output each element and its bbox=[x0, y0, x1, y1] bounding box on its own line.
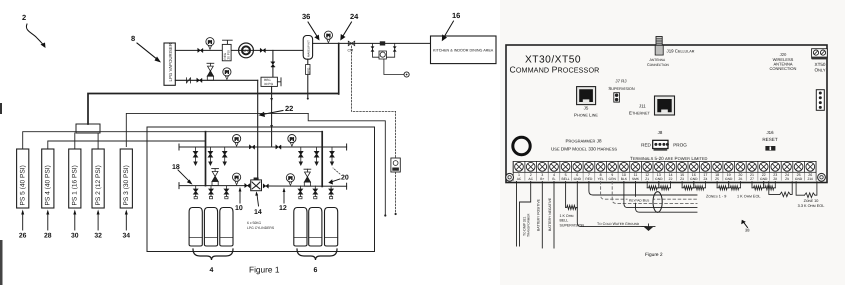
callout 30 with arrow bbox=[71, 210, 79, 240]
relief valve left manifold bbox=[212, 169, 219, 186]
makeup kit sense stem BPG bbox=[306, 59, 311, 99]
LPG cylinder bbox=[309, 208, 322, 247]
terminal strip body bbox=[513, 161, 816, 180]
svg-text:26: 26 bbox=[19, 233, 27, 240]
XT50 wireless connector (top right) bbox=[812, 49, 828, 60]
battery positive wire bbox=[541, 182, 543, 249]
pigtail drop valve bbox=[194, 147, 198, 165]
J20 header 4 pin bbox=[816, 90, 824, 111]
svg-text:30 PSI: 30 PSI bbox=[264, 82, 273, 86]
J5 phone line label bbox=[574, 106, 598, 118]
vapour outlet pipe (top) bbox=[175, 49, 303, 51]
sensing line PS5 across bbox=[23, 132, 323, 149]
svg-text:ETHERNET: ETHERNET bbox=[629, 111, 651, 116]
bypass gauge BPG bbox=[239, 43, 254, 58]
junction box for PS1/PS2 sensing lines bbox=[76, 124, 100, 133]
svg-text:SUPERVISION: SUPERVISION bbox=[608, 86, 635, 91]
keypad bus loop ellipse bbox=[653, 192, 662, 213]
pigtail drop valve bbox=[315, 147, 319, 165]
label 14 with arrow bbox=[254, 191, 262, 216]
programmer text bbox=[551, 139, 617, 152]
sensing line from junction box to main riser (thick) bbox=[88, 94, 339, 125]
transformer wires bbox=[517, 182, 531, 247]
terminal 23 Z8 bbox=[771, 162, 780, 180]
pigtail drop valve bbox=[209, 147, 213, 165]
svg-text:1 K OHM: 1 K OHM bbox=[560, 214, 574, 218]
svg-text:BPG: BPG bbox=[242, 49, 250, 53]
svg-text:RED: RED bbox=[585, 177, 593, 181]
svg-text:J11: J11 bbox=[639, 104, 646, 109]
battery negative label bbox=[548, 197, 552, 231]
terminal 2 AC bbox=[526, 162, 535, 180]
svg-text:TERMINALS 5-20 ARE POWER LIMIT: TERMINALS 5-20 ARE POWER LIMITED bbox=[630, 156, 708, 161]
regulator REG 20 PSI bbox=[222, 40, 232, 61]
brace bank 4 bbox=[193, 249, 233, 274]
XT50 only label bbox=[814, 62, 825, 73]
drain branch with vent bbox=[384, 59, 409, 77]
pressure switch PS 5 bbox=[17, 149, 29, 208]
sensing line to solenoid loop bbox=[308, 113, 386, 216]
cylinder valve bbox=[194, 186, 198, 199]
svg-text:PS 2 (12 PSI): PS 2 (12 PSI) bbox=[95, 165, 102, 205]
main riser junction 24 bbox=[338, 43, 340, 94]
callout 38 arrow bbox=[741, 220, 750, 233]
svg-text:Z5: Z5 bbox=[715, 177, 719, 181]
svg-text:24: 24 bbox=[350, 12, 359, 21]
pressure gauge PI (main line) bbox=[324, 31, 332, 43]
callout 26 with arrow bbox=[19, 210, 27, 240]
svg-text:MAKEUP KIT: MAKEUP KIT bbox=[307, 40, 311, 57]
label 36 with arrow bbox=[302, 12, 320, 41]
valve on branch bbox=[271, 62, 275, 67]
battery negative wire bbox=[553, 182, 555, 249]
left strip screw bbox=[506, 173, 514, 181]
svg-text:12: 12 bbox=[279, 205, 287, 212]
svg-text:Z6: Z6 bbox=[738, 177, 742, 181]
pipe from REG 30 PSI down to manifold bbox=[270, 86, 273, 146]
check symbol on feed pipe bbox=[187, 78, 191, 83]
dashed control line from CM valve bbox=[352, 46, 396, 213]
Figure 1 caption bbox=[249, 265, 280, 275]
svg-text:6 x 50KG: 6 x 50KG bbox=[247, 221, 261, 225]
pressure switch PS 1 bbox=[69, 149, 81, 208]
svg-text:6: 6 bbox=[314, 267, 318, 274]
svg-text:CONNECTION: CONNECTION bbox=[647, 63, 669, 67]
shutoff valve CM bbox=[348, 41, 355, 52]
cylinder valve bbox=[209, 186, 213, 199]
svg-text:2: 2 bbox=[22, 13, 26, 22]
svg-text:LPG CYLINDERS: LPG CYLINDERS bbox=[247, 226, 275, 230]
svg-text:GND: GND bbox=[795, 177, 803, 181]
terminal 6 GND bbox=[573, 162, 582, 180]
relief valve right manifold bbox=[304, 169, 311, 186]
LPG cylinder bbox=[189, 208, 202, 247]
terminal 8 YEL bbox=[596, 162, 605, 180]
label 16 with arrow bbox=[442, 11, 461, 41]
svg-text:BATTERY POSITIVE: BATTERY POSITIVE bbox=[537, 198, 541, 231]
zone EOL resistors bbox=[647, 182, 775, 190]
zone 9 resistor (offset) bbox=[769, 182, 792, 197]
svg-text:PROGRAMMER J8: PROGRAMMER J8 bbox=[565, 139, 602, 144]
label 10 with arrow bbox=[235, 187, 243, 212]
gauges on top manifold bbox=[233, 135, 297, 147]
terminal 10 BLK bbox=[620, 162, 629, 180]
supply drop right bank (thick) bbox=[321, 132, 323, 187]
battery positive label bbox=[537, 198, 541, 231]
line sensor unit bbox=[391, 158, 400, 172]
terminal 7 RED bbox=[585, 162, 594, 180]
figure 2: XT30/XT50 command processor board bbox=[500, 0, 845, 285]
callout 32 with arrow bbox=[94, 210, 102, 240]
cylinder valve bbox=[313, 186, 317, 199]
svg-text:CM: CM bbox=[348, 49, 354, 53]
svg-text:PHONE LINE: PHONE LINE bbox=[574, 113, 598, 118]
gauges on bottom manifold bbox=[233, 173, 295, 185]
regulator REG 30 PSI bbox=[261, 77, 281, 86]
J7 jumper 2 pin bbox=[614, 93, 620, 102]
LPG cylinder bbox=[220, 208, 233, 247]
svg-text:4: 4 bbox=[210, 267, 214, 274]
svg-text:14: 14 bbox=[254, 209, 262, 216]
cylinders text bbox=[247, 221, 275, 230]
J20 wireless antenna label bbox=[770, 52, 797, 71]
svg-text:LPG VAPOURISER: LPG VAPOURISER bbox=[168, 43, 173, 81]
mounting hole bbox=[513, 137, 530, 154]
cylinder enclosure bbox=[147, 127, 375, 252]
liquid manifold (bottom) right segment bbox=[265, 183, 347, 189]
svg-text:1 K OHM EOL: 1 K OHM EOL bbox=[737, 195, 761, 199]
svg-text:32: 32 bbox=[94, 233, 102, 240]
LPG cylinder bbox=[294, 208, 307, 247]
svg-text:10: 10 bbox=[235, 205, 243, 212]
svg-text:XT50: XT50 bbox=[815, 62, 826, 67]
J8 prog header bbox=[641, 130, 687, 151]
keypad bus wires bbox=[589, 182, 697, 213]
board title bbox=[510, 55, 600, 75]
pigtail drop valve bbox=[223, 147, 227, 165]
relief valve on feed pipe bbox=[207, 63, 214, 80]
zone 10 note bbox=[798, 199, 825, 208]
svg-text:AC: AC bbox=[528, 177, 533, 181]
label 22 with arrow bbox=[259, 104, 294, 117]
terminal 4 B- bbox=[550, 162, 559, 180]
terminal 16 GND bbox=[689, 162, 698, 180]
label 20 with arrow bbox=[328, 168, 349, 185]
svg-text:PROG: PROG bbox=[673, 143, 687, 148]
svg-text:ZONE 10: ZONE 10 bbox=[804, 199, 819, 203]
cold water ground label bbox=[597, 222, 640, 226]
transformer label bbox=[523, 213, 531, 237]
right strip screw bbox=[818, 173, 826, 181]
svg-text:BLK: BLK bbox=[621, 177, 628, 181]
cylinder valve bbox=[225, 186, 229, 199]
svg-text:Z2: Z2 bbox=[669, 177, 673, 181]
terminal 15 Z3 bbox=[678, 162, 687, 180]
pressure switch PS 3 bbox=[120, 149, 132, 208]
svg-text:CONNECTION: CONNECTION bbox=[770, 66, 797, 71]
svg-text:COMMAND PROCESSOR: COMMAND PROCESSOR bbox=[510, 65, 600, 75]
pigtail drop valve bbox=[299, 147, 303, 165]
svg-text:38: 38 bbox=[745, 228, 750, 233]
svg-text:Z7: Z7 bbox=[750, 177, 754, 181]
svg-text:BATTERY NEGATIVE: BATTERY NEGATIVE bbox=[548, 197, 552, 231]
changeover feed pipe 22 (down to manifold) bbox=[257, 80, 259, 180]
svg-text:PS 1 (16 PSI): PS 1 (16 PSI) bbox=[72, 165, 79, 205]
svg-text:3.3 K OHM EOL: 3.3 K OHM EOL bbox=[798, 204, 825, 208]
liquid feed pipe (lower) bbox=[175, 79, 257, 81]
makeup kit vessel 36 bbox=[303, 36, 312, 60]
terminal 26 Z10 bbox=[806, 162, 815, 180]
figure 1: LPG gas supply schematic bbox=[0, 11, 496, 285]
J7 RJ supervision label bbox=[608, 79, 635, 92]
liquid manifold (bottom) left segment bbox=[179, 183, 248, 189]
svg-text:YEL: YEL bbox=[597, 177, 603, 181]
svg-text:B-: B- bbox=[552, 177, 555, 181]
svg-text:22: 22 bbox=[285, 104, 293, 113]
bell supervision resistor bbox=[566, 182, 578, 210]
sensing line risers PS1 PS2 bbox=[75, 133, 98, 149]
svg-text:PS 5 (40 PSI): PS 5 (40 PSI) bbox=[20, 165, 27, 205]
LPG cylinder bbox=[204, 208, 217, 247]
terminal 18 Z5 bbox=[713, 162, 722, 180]
LPG vaporiser unit 8 bbox=[164, 43, 175, 85]
scanned page tint bbox=[500, 0, 845, 285]
svg-text:KITCHEN & INDOOR DINING AREA: KITCHEN & INDOOR DINING AREA bbox=[433, 49, 494, 53]
zone 10 resistor (offset) bbox=[796, 182, 817, 198]
sensing line PS4 bbox=[48, 141, 206, 149]
svg-text:Z8: Z8 bbox=[773, 177, 777, 181]
svg-text:20: 20 bbox=[341, 175, 349, 182]
svg-text:B+: B+ bbox=[540, 177, 544, 181]
svg-text:20 PSI: 20 PSI bbox=[227, 50, 231, 59]
terminal 9 GRN bbox=[608, 162, 617, 180]
svg-text:GND: GND bbox=[760, 177, 768, 181]
terminal 22 GND bbox=[759, 162, 768, 180]
scan edge mark bbox=[0, 103, 3, 285]
svg-text:34: 34 bbox=[123, 233, 131, 240]
cylinder valve bbox=[329, 186, 333, 199]
svg-text:RESET: RESET bbox=[762, 137, 778, 142]
terminals power limited note bbox=[630, 156, 708, 161]
zones note bbox=[706, 195, 761, 199]
svg-text:PS 3 (30 PSI): PS 3 (30 PSI) bbox=[123, 165, 130, 205]
svg-text:J5: J5 bbox=[584, 106, 589, 111]
svg-text:Figure 1: Figure 1 bbox=[249, 265, 280, 275]
svg-text:30: 30 bbox=[71, 233, 79, 240]
keypad bus label bbox=[628, 197, 654, 203]
terminal 11 SMK bbox=[631, 162, 640, 180]
svg-text:BELL: BELL bbox=[562, 177, 570, 181]
svg-text:PS 4 (40 PSI): PS 4 (40 PSI) bbox=[45, 165, 52, 205]
svg-text:GND: GND bbox=[574, 177, 582, 181]
brace bank 6 bbox=[297, 249, 337, 274]
callout 28 with arrow bbox=[44, 210, 52, 240]
svg-text:BPG: BPG bbox=[306, 67, 310, 74]
valve on feed pipe bbox=[197, 78, 202, 82]
J11 ethernet jack bbox=[655, 96, 675, 115]
board outline bbox=[506, 45, 827, 183]
valve after BPG bbox=[260, 48, 265, 52]
terminal 13 GND bbox=[654, 162, 663, 180]
pressure gauge PI (feed pipe) bbox=[223, 68, 231, 80]
svg-text:USE DMP MODEL 330 HARNESS: USE DMP MODEL 330 HARNESS bbox=[551, 147, 617, 152]
sensing line PS3 to changeover pipe bbox=[126, 113, 308, 146]
branch to REG 30 PSI bbox=[272, 50, 274, 77]
J19 cellular antenna connector bbox=[655, 37, 663, 56]
J11 ethernet label bbox=[629, 104, 651, 116]
supply drop left bank (thick) bbox=[205, 132, 207, 186]
valve on vapour pipe bbox=[198, 48, 203, 52]
svg-text:RED: RED bbox=[641, 143, 651, 148]
svg-text:Z1: Z1 bbox=[645, 177, 649, 181]
svg-text:J19 CELLULAR: J19 CELLULAR bbox=[667, 49, 695, 54]
svg-text:BELL: BELL bbox=[560, 219, 569, 223]
svg-text:J16: J16 bbox=[766, 130, 774, 135]
changeover regulator 14 bbox=[245, 178, 269, 191]
svg-text:8: 8 bbox=[131, 34, 135, 43]
valves on top manifold bbox=[249, 145, 281, 149]
svg-text:Z4: Z4 bbox=[703, 177, 707, 181]
callout 34 with arrow bbox=[123, 210, 131, 240]
terminal 12 Z1 bbox=[643, 162, 652, 180]
svg-text:Figure 2: Figure 2 bbox=[645, 252, 663, 258]
label 8 with arrow to vaporiser bbox=[131, 34, 161, 63]
svg-text:ZONES 1 - 9: ZONES 1 - 9 bbox=[706, 195, 726, 199]
label 2 with squiggle arrow bbox=[22, 13, 46, 48]
terminal 21 Z7 bbox=[748, 162, 757, 180]
svg-text:16: 16 bbox=[452, 11, 460, 20]
svg-text:GND: GND bbox=[655, 177, 663, 181]
svg-text:GND: GND bbox=[690, 177, 698, 181]
terminal 14 Z2 bbox=[666, 162, 675, 180]
LPG cylinder bbox=[325, 208, 338, 247]
svg-text:J7 RJ: J7 RJ bbox=[615, 79, 626, 84]
svg-text:ANTENNA: ANTENNA bbox=[650, 58, 666, 62]
svg-text:TRANSFORMER: TRANSFORMER bbox=[527, 213, 531, 237]
cold water ground wire bbox=[577, 182, 646, 227]
svg-text:28: 28 bbox=[44, 233, 52, 240]
J19 cellular label bbox=[647, 49, 695, 68]
pigtail drop valve bbox=[330, 147, 334, 165]
label 18 with arrow bbox=[172, 164, 193, 185]
Figure 2 caption bbox=[645, 252, 663, 258]
terminal 20 Z6 bbox=[736, 162, 745, 180]
pressure gauge PI (vapour pipe) bbox=[206, 38, 214, 50]
terminal 17 Z4 bbox=[701, 162, 710, 180]
terminal 3 B+ bbox=[538, 162, 547, 180]
kitchen and indoor dining area 16 bbox=[431, 36, 497, 64]
svg-text:GRN: GRN bbox=[609, 177, 617, 181]
terminal 19 GND bbox=[724, 162, 733, 180]
vapour return manifold (top) bbox=[179, 144, 347, 150]
bell supervision label bbox=[560, 214, 585, 227]
svg-text:KEYPAD BUS: KEYPAD BUS bbox=[629, 199, 649, 203]
svg-text:ONLY: ONLY bbox=[814, 68, 825, 73]
J16 reset bbox=[762, 130, 778, 151]
svg-text:36: 36 bbox=[302, 12, 310, 21]
ground symbol bbox=[642, 224, 655, 231]
terminal 1 AC bbox=[515, 162, 524, 180]
svg-text:SMK: SMK bbox=[632, 177, 640, 181]
pressure switch PS 4 bbox=[42, 149, 54, 208]
terminal 5 BELL bbox=[561, 162, 570, 180]
terminal 24 Z9 bbox=[783, 162, 792, 180]
main supply line to kitchen bbox=[313, 42, 431, 44]
label 24 with arrow bbox=[340, 12, 359, 41]
pressure switch PS 2 bbox=[92, 149, 104, 208]
svg-text:J8: J8 bbox=[658, 130, 663, 135]
label 12 with arrow bbox=[279, 188, 287, 213]
svg-text:Z10: Z10 bbox=[807, 177, 813, 181]
svg-text:TO COLD WATER GROUND: TO COLD WATER GROUND bbox=[597, 222, 640, 226]
J5 phone line jack bbox=[577, 87, 596, 105]
terminal 25 GND bbox=[794, 162, 803, 180]
regulator bypass loop on main line bbox=[371, 41, 397, 59]
svg-text:Z3: Z3 bbox=[680, 177, 684, 181]
svg-text:18: 18 bbox=[172, 164, 180, 171]
sensor line end bbox=[395, 213, 397, 215]
svg-text:Z9: Z9 bbox=[785, 177, 789, 181]
cylinder valve bbox=[299, 186, 303, 199]
svg-text:AC: AC bbox=[517, 177, 522, 181]
svg-text:GND: GND bbox=[725, 177, 733, 181]
